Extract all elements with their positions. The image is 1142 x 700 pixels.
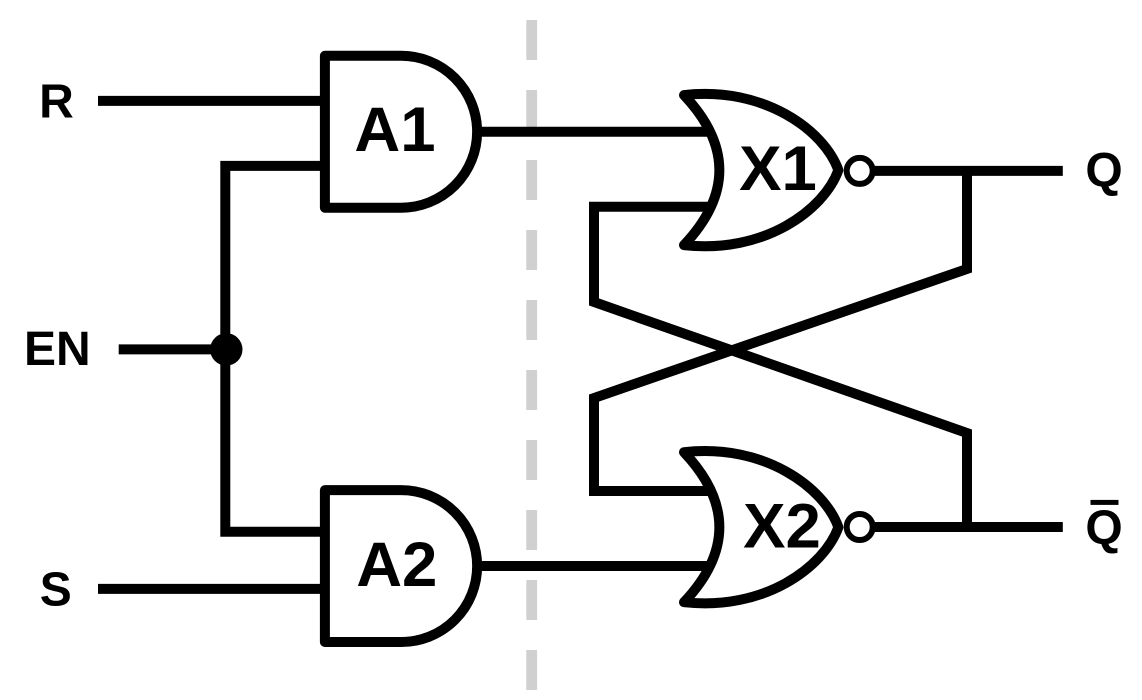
wire A1 output to X1 input [474, 127, 716, 137]
overline of Q-bar [1091, 500, 1119, 505]
svg-text:A1: A1 [354, 95, 435, 165]
svg-text:A2: A2 [356, 530, 437, 600]
and-gate A2 [325, 490, 477, 642]
wire S input [98, 584, 336, 594]
junction dot EN node [210, 333, 242, 365]
wire Q output [872, 166, 1063, 176]
wire Q-bar output [872, 522, 1063, 532]
wire EN vertical branch to A2 [225, 349, 336, 531]
nor-gate X1 bubble [847, 158, 873, 184]
svg-text:X1: X1 [739, 134, 817, 204]
wire X1 lower input feedback from Q-bar [594, 207, 967, 527]
nor-gate X1 body [684, 94, 838, 246]
svg-text:R: R [39, 76, 74, 129]
wire A2 output to X2 input [474, 561, 716, 571]
nor-gate X2 body [684, 451, 838, 603]
wire EN vertical branch to A1 [225, 166, 336, 350]
svg-text:Q: Q [1085, 145, 1122, 198]
svg-text:EN: EN [24, 323, 91, 376]
dashed separator line [526, 20, 537, 700]
wire EN stub [119, 344, 226, 354]
wire R input [98, 96, 336, 106]
wire X2 upper input feedback from Q [594, 171, 967, 491]
nor-gate X2 bubble [847, 514, 873, 540]
svg-text:S: S [40, 564, 72, 617]
svg-text:Q: Q [1085, 502, 1122, 555]
and-gate A1 [325, 56, 477, 208]
svg-text:X2: X2 [743, 492, 821, 562]
